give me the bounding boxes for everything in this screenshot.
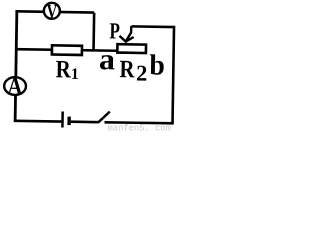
wire [130, 26, 174, 123]
label R1 [55, 56, 79, 83]
wire [15, 10, 17, 121]
switch S1 [98, 111, 110, 122]
svg-text:1: 1 [71, 66, 79, 83]
wire [14, 120, 62, 123]
resistor R1 [52, 45, 82, 55]
wire [16, 49, 116, 51]
battery B1 [62, 112, 69, 128]
ammeter A1 [4, 73, 26, 100]
svg-text:P: P [109, 18, 120, 43]
svg-text:R: R [55, 56, 71, 83]
wire [71, 120, 99, 123]
wire [92, 13, 95, 50]
wire [15, 11, 94, 12]
voltmeter V1 [44, 2, 60, 23]
svg-text:V: V [46, 2, 57, 23]
svg-text:A: A [7, 73, 22, 100]
resistor R2 rheostat track [117, 44, 146, 53]
svg-text:2: 2 [136, 60, 148, 85]
wiper P arrow [119, 26, 133, 42]
svg-text:b: b [149, 49, 165, 81]
wire [105, 122, 174, 123]
svg-text:R: R [119, 56, 135, 83]
svg-text:a: a [99, 43, 116, 76]
label R2 [119, 56, 147, 85]
